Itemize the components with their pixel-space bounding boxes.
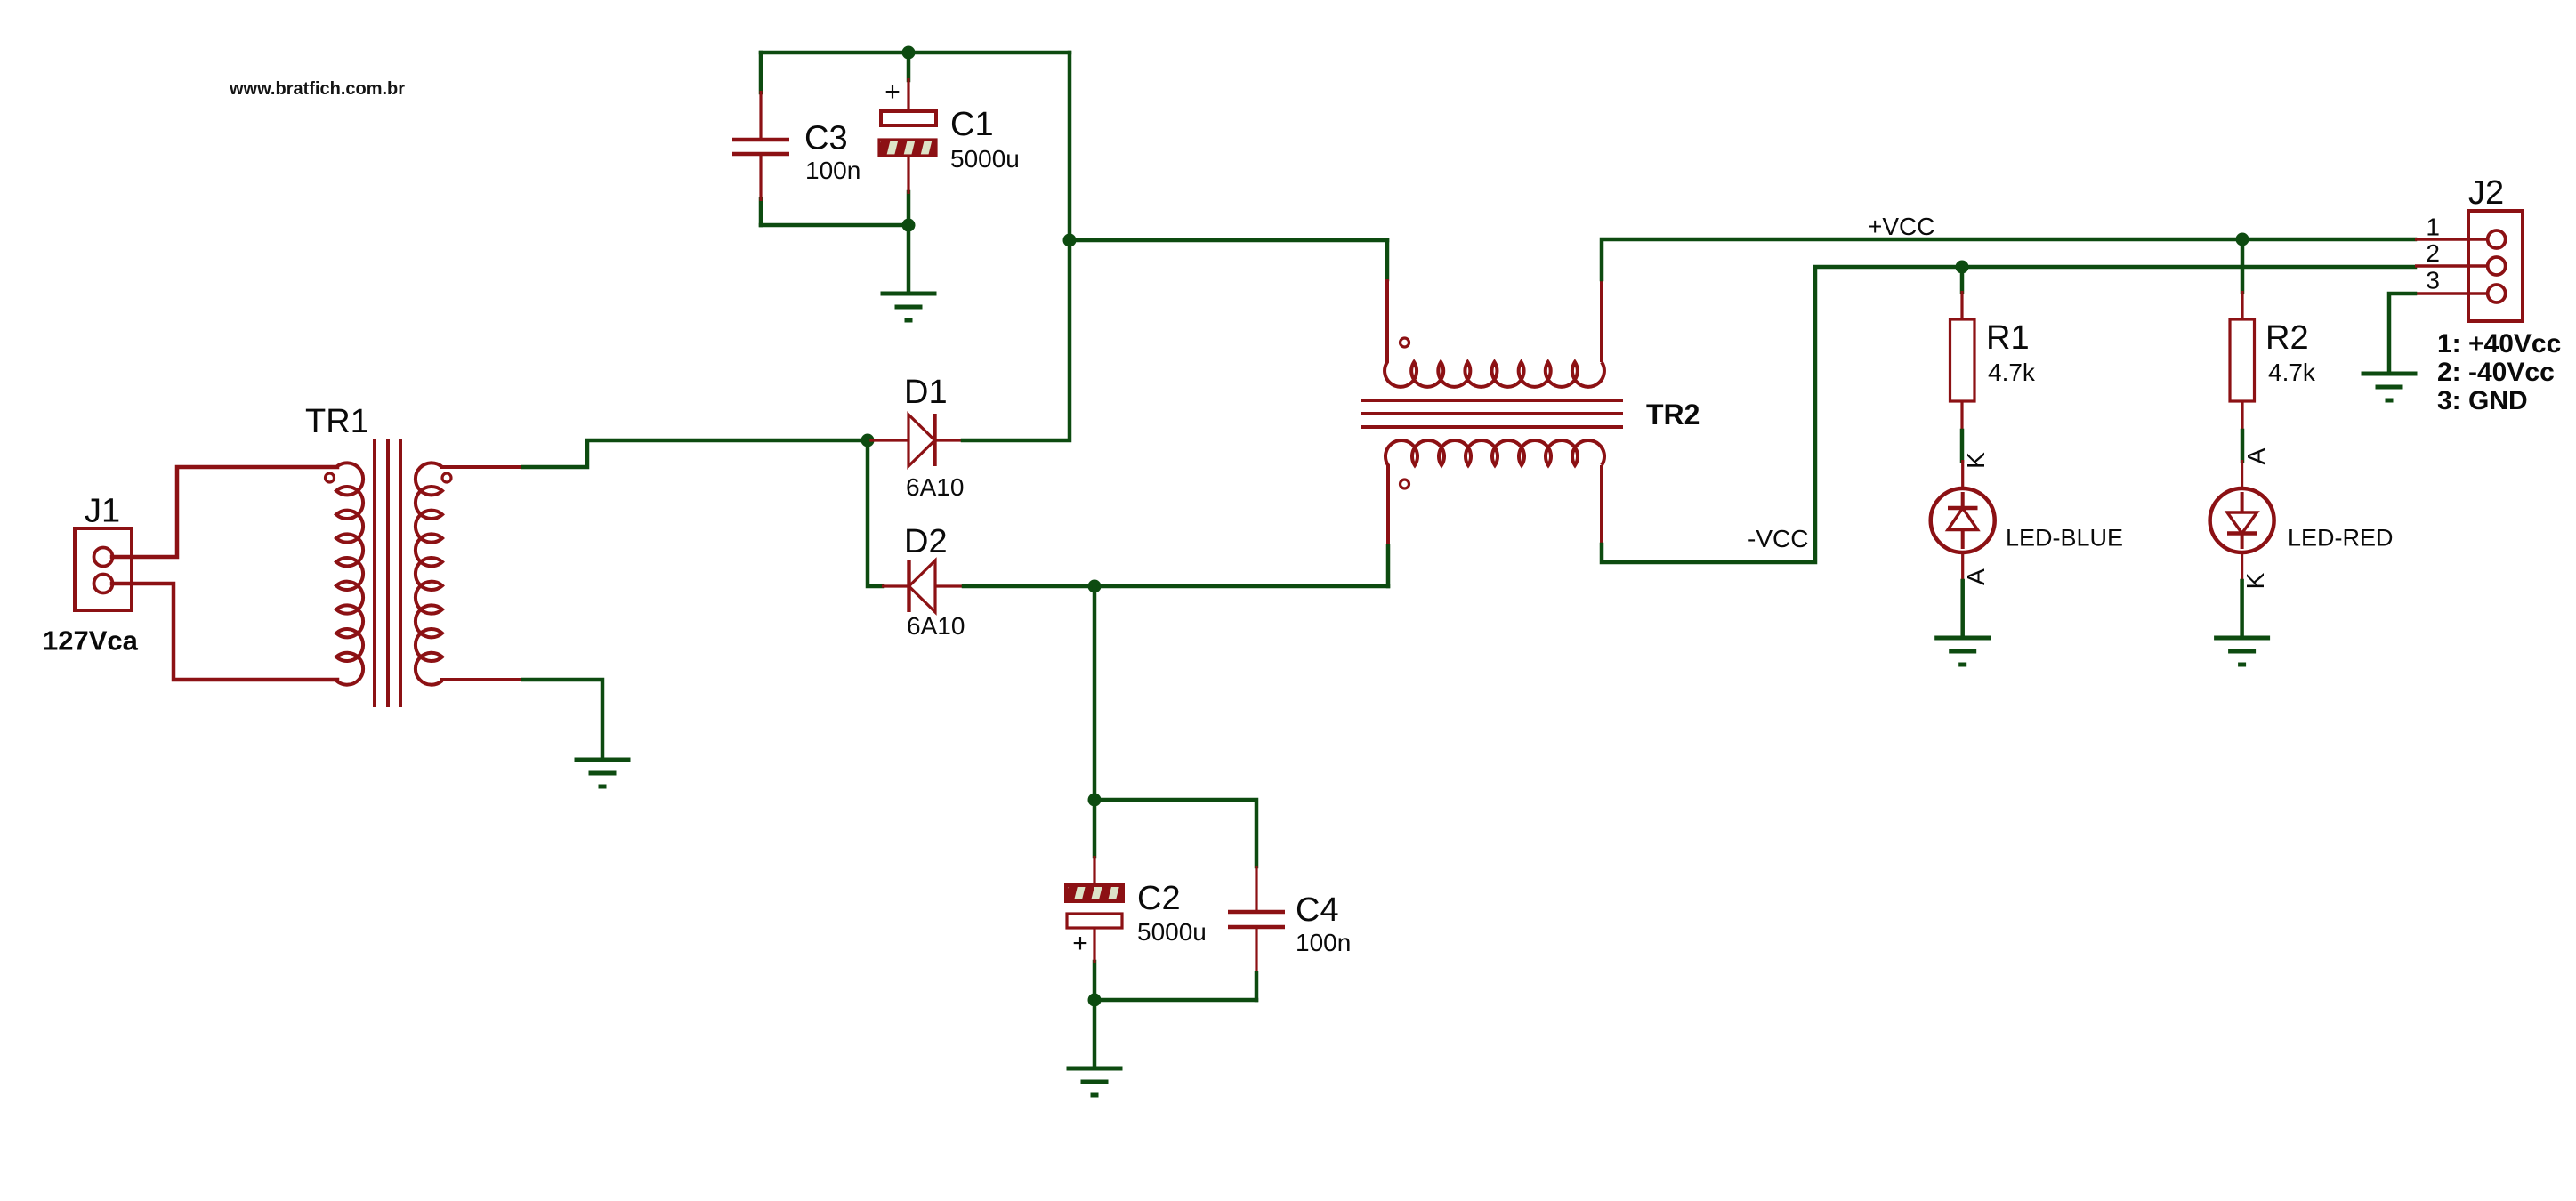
svg-text:1: +40Vcc: 1: +40Vcc [2437, 329, 2561, 359]
svg-text:A: A [1962, 568, 1990, 585]
wire R1 top lead green [1960, 267, 1965, 292]
wire LED-RED to ground [2240, 581, 2244, 635]
junction top rail C1 [902, 46, 916, 60]
transformer TR1 secondary winding [416, 463, 442, 684]
diode D2 6A10 [882, 560, 964, 612]
svg-text:100n: 100n [805, 157, 860, 184]
wire C2 bottom rail [1094, 998, 1256, 1003]
wire TR2 bottom-left green lead [1386, 546, 1391, 586]
wire C2 top rail to C4 [1094, 800, 1256, 866]
svg-text:K: K [2241, 572, 2269, 589]
wire TR1 secondary top to node A [523, 440, 868, 467]
resistor R1 4.7k [1950, 291, 1975, 431]
wire R1 to LED-BLUE [1960, 431, 1965, 461]
TR2 top-right red lead [1600, 279, 1603, 362]
junction C2 bottom rail [1088, 994, 1102, 1007]
ground J2 [2362, 374, 2418, 400]
svg-text:LED-BLUE: LED-BLUE [2006, 525, 2123, 552]
wire J1 pin1 to TR1 primary top [112, 467, 337, 557]
resistor R2 4.7k [2230, 291, 2255, 431]
transformer TR1 core [375, 439, 400, 707]
LED-RED [2210, 460, 2274, 581]
TR2 top polarity dot [1401, 338, 1409, 347]
wire C3 bottom lead green [759, 199, 763, 225]
svg-text:2: 2 [2426, 239, 2440, 267]
wire C1 bottom lead green [907, 192, 911, 225]
TR1 secondary polarity dot [442, 473, 451, 482]
capacitor C1 5000u electrolytic [879, 78, 936, 194]
svg-text:J2: J2 [2468, 174, 2504, 212]
junction D2 output / C2 branch [1088, 580, 1102, 593]
wire D2 node down to C2 rail [1093, 586, 1097, 800]
LED-BLUE [1931, 460, 1995, 581]
wire top rail C3/C1 [761, 51, 1070, 55]
ground bottom filter [1067, 1068, 1123, 1095]
ground TR1 secondary [575, 760, 631, 786]
svg-text:6A10: 6A10 [907, 612, 965, 640]
svg-text:1: 1 [2426, 214, 2440, 241]
svg-text:C3: C3 [804, 120, 848, 157]
wire TR1 secondary top stub [442, 465, 523, 469]
ground top filter [881, 294, 937, 320]
svg-text:127Vca: 127Vca [43, 625, 139, 657]
svg-text:www.bratfich.com.br: www.bratfich.com.br [229, 79, 405, 99]
wire C2 node to ground [1093, 1000, 1097, 1068]
svg-text:R2: R2 [2265, 319, 2309, 357]
node A junction TR1/D1/D2 [861, 434, 875, 447]
wire D1 cathode up to C1 node [963, 52, 1070, 440]
svg-text:J1: J1 [85, 493, 120, 530]
wire +VCC rail [1602, 239, 2415, 279]
svg-text:C4: C4 [1296, 891, 1339, 929]
connector J2 [2415, 211, 2523, 321]
capacitor C3 100n [732, 91, 789, 201]
wire node A down to D2 [868, 440, 883, 586]
svg-text:6A10: 6A10 [906, 473, 964, 501]
svg-text:100n: 100n [1296, 929, 1351, 956]
svg-text:A: A [2242, 447, 2270, 464]
ground LED-BLUE [1934, 638, 1991, 665]
wire TR1 secondary bottom to ground [523, 680, 602, 758]
wire R2 to LED-RED [2241, 431, 2245, 461]
wire C2 bottom lead green [1093, 962, 1097, 1000]
TR2 bottom polarity dot [1401, 480, 1409, 488]
transformer TR1 primary winding [336, 463, 363, 684]
svg-text:3: 3 [2426, 266, 2440, 294]
wire J2 pin3 to ground [2389, 294, 2415, 371]
wire -VCC rail [1602, 267, 2415, 562]
svg-text:-VCC: -VCC [1748, 525, 1808, 552]
wire C1 top lead green [907, 52, 911, 80]
junction bottom rail C1/ground [902, 219, 916, 232]
transformer TR2 core [1361, 400, 1623, 427]
junction +VCC R2 [2236, 233, 2249, 246]
wire TR1 secondary bottom stub [442, 678, 523, 681]
wire J1 pin2 to TR1 primary bottom [112, 584, 337, 680]
ground LED-RED [2214, 638, 2270, 665]
svg-text:TR1: TR1 [305, 403, 369, 440]
wire C3 top lead green [759, 52, 763, 93]
svg-text:+: + [884, 77, 900, 107]
TR2 bottom-right red lead [1600, 465, 1603, 544]
svg-text:+VCC: +VCC [1868, 213, 1934, 240]
capacitor C4 100n [1228, 866, 1285, 973]
capacitor C2 5000u electrolytic [1066, 856, 1123, 963]
svg-text:5000u: 5000u [1137, 918, 1207, 946]
svg-text:C2: C2 [1137, 880, 1181, 917]
wire C4 bottom lead green [1255, 973, 1259, 1000]
wire C1/C3 node to ground [907, 225, 911, 294]
transformer TR2 bottom winding [1385, 440, 1604, 546]
svg-text:LED-RED: LED-RED [2288, 525, 2394, 552]
junction -VCC R1 [1956, 261, 1969, 274]
connector J1 [75, 528, 132, 610]
svg-text:4.7k: 4.7k [1988, 359, 2036, 386]
junction C2 top rail [1088, 794, 1102, 807]
wire TR2 top-left green lead [1385, 240, 1390, 279]
wire rectifier+ to TR2 top left [1070, 238, 1387, 243]
svg-text:D2: D2 [904, 523, 948, 560]
svg-text:C1: C1 [950, 106, 994, 143]
svg-text:D1: D1 [904, 374, 948, 411]
svg-text:+: + [1072, 929, 1088, 958]
TR1 primary polarity dot [326, 473, 335, 482]
svg-text:5000u: 5000u [950, 145, 1020, 173]
svg-text:K: K [1962, 452, 1990, 469]
svg-text:4.7k: 4.7k [2268, 359, 2316, 386]
junction +rect to TR2 [1063, 234, 1077, 247]
svg-text:3: GND: 3: GND [2437, 386, 2528, 415]
transformer TR2 top winding [1385, 279, 1604, 387]
wire R2 top lead green [2241, 239, 2245, 292]
wire C2 top lead green [1093, 800, 1097, 857]
svg-text:2: -40Vcc: 2: -40Vcc [2437, 358, 2555, 387]
svg-text:TR2: TR2 [1646, 399, 1700, 431]
diode D1 6A10 [868, 414, 963, 466]
wire D2 anode to TR2 bottom [964, 584, 1388, 589]
svg-text:R1: R1 [1986, 319, 2030, 357]
wire bottom rail C3/C1 [761, 223, 908, 228]
wire LED-BLUE to ground [1960, 581, 1965, 635]
